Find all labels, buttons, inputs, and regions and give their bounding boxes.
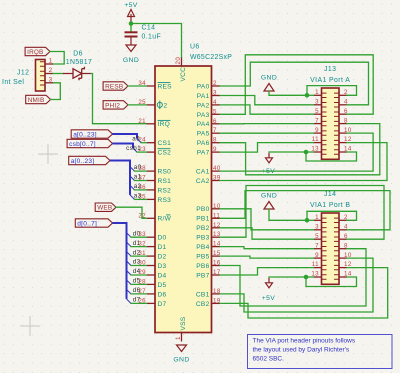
svg-text:PA2: PA2	[197, 102, 210, 109]
J13 pin 13	[314, 151, 322, 153]
U6 left pin 33	[147, 236, 156, 238]
svg-text:RS2: RS2	[158, 187, 172, 194]
U6 pin 20 VCC stub	[181, 58, 183, 67]
svg-text:a5: a5	[132, 136, 140, 143]
U6 right pin 40	[212, 170, 221, 172]
svg-text:d4: d4	[133, 268, 141, 275]
grid marker cross	[38, 144, 58, 164]
bus csb[0..7]	[113, 144, 134, 149]
capacitor C14	[125, 31, 138, 33]
wire GND to J13 pin1	[269, 91, 307, 95]
bus entry d2	[127, 252, 132, 257]
wire PB0 to J14 pin3	[220, 209, 314, 230]
U6 right pin 12	[212, 227, 221, 229]
grid marker cross	[20, 316, 40, 336]
wire PB2 to J14 pin5	[220, 228, 314, 239]
wire IRQB to J12 pin 1	[50, 52, 64, 65]
op-amp U6 body (W65C22SxP VIA)	[155, 66, 212, 333]
svg-text:PHI2: PHI2	[105, 102, 120, 109]
svg-text:CA2: CA2	[196, 178, 210, 185]
wire d2 to D2	[131, 255, 147, 257]
wire junction to J13 pin13 stub	[306, 151, 314, 153]
U6 right pin 4	[212, 104, 221, 106]
U6 right pin 16	[212, 265, 221, 267]
J13 pin 6	[339, 113, 347, 115]
U6 left pin 36	[147, 189, 156, 191]
wire CA1 to J13 pin10	[220, 133, 373, 171]
wire PA2 to J13 pin5	[220, 105, 314, 114]
U6 right pin 17	[212, 274, 221, 276]
svg-text:CS1: CS1	[158, 140, 172, 147]
svg-text:+5V: +5V	[262, 295, 276, 302]
diode D6 (schottky)	[63, 67, 91, 81]
bus entry d7	[127, 299, 132, 304]
junction at J14 pin 1	[305, 218, 310, 223]
bus entry d5	[127, 280, 132, 285]
U6 left pin 21 IRQ	[147, 123, 156, 125]
wire PA6 to J13 pin8	[220, 124, 380, 175]
wire d1 to D1	[131, 246, 147, 248]
wire GND to J14 pin1	[269, 209, 307, 220]
wire J12 pin2 to D6 anode	[53, 73, 63, 75]
wire a3 to RS3	[135, 198, 147, 200]
wire PA0 to J13 pin4	[220, 62, 369, 105]
bus entry a1	[130, 176, 135, 181]
svg-text:1N5817: 1N5817	[66, 59, 93, 66]
bus entry to CS2	[133, 148, 137, 152]
J13 pin 9	[314, 132, 322, 134]
U6 right pin 19	[212, 302, 221, 304]
svg-text:CB2: CB2	[196, 301, 210, 308]
J14 pin 9	[314, 257, 322, 259]
svg-text:d2: d2	[133, 249, 141, 256]
global label PHI2	[103, 101, 128, 109]
svg-text:D4: D4	[158, 272, 167, 279]
wire PB3 to J14 pin6	[220, 186, 384, 240]
svg-text:IRQB: IRQB	[27, 49, 43, 56]
svg-text:d1: d1	[133, 240, 141, 247]
svg-text:d7: d7	[133, 297, 141, 304]
svg-text:21: 21	[138, 118, 146, 125]
svg-text:2: 2	[49, 67, 53, 74]
svg-text:RES: RES	[158, 83, 173, 90]
J14 pin 6	[339, 238, 347, 240]
U6 left pin 26	[147, 302, 156, 304]
svg-text:D3: D3	[158, 263, 167, 270]
junction at J13 pin 1	[305, 93, 310, 98]
wire d4 to D4	[131, 274, 147, 276]
svg-text:+5V: +5V	[124, 2, 138, 9]
wire d3 to D3	[131, 265, 147, 267]
svg-text:D5: D5	[158, 282, 167, 289]
J14 pin 11	[314, 267, 322, 269]
pin name phi2	[157, 102, 162, 107]
bus entry d0	[127, 233, 132, 238]
svg-text:D6: D6	[73, 51, 83, 58]
svg-text:W65C22SxP: W65C22SxP	[190, 54, 232, 61]
bus entry d3	[127, 261, 132, 266]
bus entry d6	[127, 289, 132, 294]
+5V power symbol arrow	[128, 10, 135, 24]
svg-text:3: 3	[315, 99, 319, 106]
wire PB7 to J14 pin11	[220, 268, 314, 275]
wire CA2 to J13 pin12	[220, 143, 387, 181]
svg-text:d5: d5	[133, 278, 141, 285]
wire GND loop to J14 pin2	[307, 211, 357, 220]
global label RESB	[103, 82, 128, 90]
svg-text:7: 7	[315, 242, 319, 249]
wire junction to J13 pin1 stub	[307, 94, 314, 96]
svg-text:PB2: PB2	[196, 225, 209, 232]
J14 pin 8	[339, 248, 347, 250]
svg-text:3: 3	[315, 223, 319, 230]
wire CB2 to J14 pin12	[220, 268, 388, 318]
U6 left pin 38	[147, 170, 156, 172]
bus d[0..7]	[113, 223, 127, 299]
U6 left pin 35	[147, 198, 156, 200]
svg-text:CS2: CS2	[158, 150, 172, 157]
J12 pin 3	[45, 82, 53, 84]
svg-text:a2: a2	[134, 183, 142, 190]
J14 pin 14	[339, 276, 347, 278]
svg-text:3: 3	[213, 90, 217, 97]
ground symbol at J13 pin 1	[264, 84, 274, 92]
U6 right pin 6	[212, 123, 221, 125]
wire +5V to C14 top plate	[130, 24, 132, 32]
svg-text:GND: GND	[261, 75, 277, 82]
svg-text:CB1: CB1	[196, 291, 210, 298]
bus entry a0	[130, 167, 135, 172]
svg-text:PA1: PA1	[197, 93, 210, 100]
U6 right pin 11	[212, 217, 221, 219]
J13 pin 3	[314, 104, 322, 106]
+5V symbol at J14 pin 13 (rotated down)	[266, 278, 273, 288]
bus a[0..23] lower	[110, 161, 130, 195]
wire CB1 to J14 pin10	[220, 258, 373, 312]
wire +5V to J14 pin13	[269, 276, 306, 278]
U6 right pin 5	[212, 113, 221, 115]
bus entry d4	[127, 271, 132, 276]
bus label a[0..23] upper	[71, 130, 112, 138]
svg-text:1: 1	[49, 58, 53, 65]
note text box	[248, 335, 393, 369]
bus entry to CS1	[137, 139, 141, 143]
svg-text:d0: d0	[133, 230, 141, 237]
U6 right pin 18	[212, 293, 221, 295]
wire d0 to D0	[131, 236, 147, 238]
svg-text:8: 8	[213, 137, 217, 144]
J14 pin 12	[339, 267, 347, 269]
svg-text:PA0: PA0	[197, 83, 210, 90]
wire +5V to J13 pin13	[269, 151, 306, 153]
svg-text:csb1: csb1	[126, 145, 141, 152]
svg-text:J13: J13	[324, 66, 336, 73]
U6 right pin 15	[212, 255, 221, 257]
svg-text:RS1: RS1	[158, 178, 172, 185]
svg-text:7: 7	[213, 127, 217, 134]
U6 right pin 8	[212, 142, 221, 144]
svg-text:U6: U6	[190, 44, 200, 51]
J14 pin 13	[314, 276, 322, 278]
wire WEB to U6 R/W pin 22	[116, 207, 147, 218]
svg-text:6502 SBC.: 6502 SBC.	[253, 356, 285, 363]
wire junction to J14 pin1 stub	[307, 219, 314, 221]
svg-text:PB1: PB1	[196, 216, 209, 223]
svg-text:RS0: RS0	[158, 169, 172, 176]
bus entry d1	[127, 242, 132, 247]
svg-text:5: 5	[315, 233, 319, 240]
U6 right pin 7	[212, 132, 221, 134]
wire GND loop to J13 pin2	[307, 86, 357, 96]
U6 left pin 23	[147, 151, 156, 153]
U6 pin 1 VSS stub	[181, 333, 183, 342]
J14 pin 1	[314, 219, 322, 221]
svg-text:GND: GND	[123, 57, 139, 64]
wire C14 bottom to GND	[130, 37, 132, 45]
J13 pin 14	[339, 151, 347, 153]
svg-text:a[0..23]: a[0..23]	[73, 131, 97, 138]
bus label d[0..7]	[75, 219, 112, 227]
svg-text:NMIB: NMIB	[28, 97, 45, 104]
U6 right pin 10	[212, 208, 221, 210]
wire a2 to RS2	[135, 189, 147, 191]
bus entry a3	[130, 195, 135, 200]
svg-text:GND: GND	[261, 193, 277, 200]
wire PA5 to J13 pin9	[220, 132, 314, 134]
svg-text:d6: d6	[133, 287, 141, 294]
U6 left pin 25 PHI2	[147, 104, 156, 106]
svg-text:C14: C14	[142, 25, 156, 32]
svg-text:d[0..7]: d[0..7]	[77, 220, 97, 227]
global label NMIB	[26, 95, 51, 103]
J13 pin 11	[314, 142, 322, 144]
svg-text:D2: D2	[158, 254, 167, 261]
svg-text:0.1uF: 0.1uF	[142, 34, 162, 41]
J12 pin 1	[45, 63, 53, 65]
svg-text:J14: J14	[324, 191, 336, 198]
U6 left pin 31	[147, 255, 156, 257]
wire RESB to U6 RES	[128, 85, 147, 87]
svg-text:2: 2	[213, 80, 217, 87]
bus a[0..23] upper	[113, 134, 138, 139]
svg-text:RESB: RESB	[105, 83, 123, 90]
svg-text:a0: a0	[134, 164, 142, 171]
svg-text:VSS: VSS	[180, 316, 187, 330]
svg-text:PA7: PA7	[197, 150, 210, 157]
connector J14 VIA1 Port B	[322, 213, 340, 284]
J14 pin 5	[314, 238, 322, 240]
bus label csb[0..7]	[67, 139, 112, 147]
global label WEB	[95, 203, 116, 211]
svg-text:1: 1	[315, 214, 319, 221]
J14 pin 4	[339, 229, 347, 231]
svg-text:6: 6	[213, 118, 217, 125]
wire PB1 to J14 pin4	[220, 191, 390, 230]
J14 pin 3	[314, 229, 322, 231]
U6 left pin 34 RES	[147, 85, 156, 87]
svg-text:VIA1 Port B: VIA1 Port B	[310, 202, 350, 209]
U6 left pin 29	[147, 274, 156, 276]
wire a1 to RS1	[135, 180, 147, 182]
U6 left pin 37	[147, 180, 156, 182]
ground symbol at J14 pin 1	[264, 202, 274, 210]
wire d7 to D7	[131, 302, 147, 304]
svg-text:7: 7	[315, 117, 319, 124]
svg-text:5: 5	[213, 108, 217, 115]
svg-text:R/W: R/W	[158, 216, 172, 223]
J14 pin 2	[339, 219, 347, 221]
J13 pin 7	[314, 123, 322, 125]
connector J12 body	[36, 60, 46, 92]
wire +5V loop to J13 pin14	[306, 152, 357, 161]
svg-text:a[0..23]: a[0..23]	[71, 158, 95, 165]
U6 right pin 9	[212, 151, 221, 153]
J13 pin 1	[314, 94, 322, 96]
svg-text:D1: D1	[158, 244, 167, 251]
U6 left pin 24	[147, 142, 156, 144]
svg-text:D7: D7	[158, 301, 167, 308]
svg-text:PB0: PB0	[196, 206, 209, 213]
svg-text:csb[0..7]: csb[0..7]	[69, 141, 96, 148]
U6 right pin 3	[212, 95, 221, 97]
J12 pin 2	[45, 73, 53, 75]
J14 pin 7	[314, 248, 322, 250]
J13 pin 4	[339, 104, 347, 106]
wire PA4 to J13 pin7	[220, 123, 314, 125]
svg-text:PB4: PB4	[196, 244, 209, 251]
wire PA7 to J13 pin11	[220, 143, 314, 153]
svg-text:Int Sel: Int Sel	[2, 79, 24, 86]
U6 right pin 13	[212, 236, 221, 238]
bus entry a2	[130, 185, 135, 190]
J13 pin 12	[339, 142, 347, 144]
wire D6 cathode to U6 IRQ pin 21	[91, 74, 147, 124]
U6 right pin 39	[212, 180, 221, 182]
svg-text:4: 4	[213, 99, 217, 106]
wire PB4 to J14 pin7	[220, 247, 314, 249]
J13 pin 2	[339, 94, 347, 96]
+5V symbol at J13 pin 13 (rotated down)	[266, 153, 273, 163]
ground below C14	[126, 45, 136, 52]
svg-text:D0: D0	[158, 235, 167, 242]
bus label a[0..23] lower	[69, 156, 110, 164]
svg-text:d3: d3	[133, 259, 141, 266]
svg-text:IRQ: IRQ	[158, 121, 170, 128]
svg-text:PB6: PB6	[196, 263, 209, 270]
wire junction to J14 pin13 stub	[306, 276, 314, 278]
junction at J13 pin 13	[304, 150, 309, 155]
svg-text:RS3: RS3	[158, 197, 172, 204]
svg-text:1: 1	[315, 89, 319, 96]
svg-text:WEB: WEB	[97, 205, 112, 212]
svg-text:9: 9	[213, 146, 217, 153]
U6 left pin 27	[147, 293, 156, 295]
svg-text:PA5: PA5	[197, 131, 210, 138]
global label IRQB	[25, 47, 50, 55]
wire +5V to U6 VCC pin 20	[131, 24, 182, 58]
svg-text:9: 9	[315, 252, 319, 259]
svg-text:2: 2	[164, 102, 168, 109]
wire d5 to D5	[131, 283, 147, 285]
svg-text:PA4: PA4	[197, 121, 210, 128]
junction at J14 pin 13	[304, 275, 309, 280]
J13 pin 10	[339, 132, 347, 134]
U6 right pin 2	[212, 85, 221, 87]
wire csb1 to CS2	[137, 151, 147, 153]
U6 right pin 14	[212, 246, 221, 248]
svg-text:a3: a3	[134, 192, 142, 199]
svg-text:GND: GND	[173, 357, 189, 364]
U6 left pin 28	[147, 283, 156, 285]
svg-text:J12: J12	[17, 70, 29, 77]
J14 pin 10	[339, 257, 347, 259]
wire PB5 to J14 pin9	[220, 256, 314, 258]
wire d6 to D6	[131, 293, 147, 295]
connector J13 VIA1 Port A	[322, 88, 340, 159]
svg-text:20: 20	[175, 57, 182, 65]
U6 left pin 22	[147, 217, 156, 219]
svg-text:PA6: PA6	[197, 140, 210, 147]
svg-text:3: 3	[49, 77, 53, 84]
wire a0 to RS0	[135, 170, 147, 172]
junction +5V/C14 node	[129, 21, 134, 26]
wire NMIB to J12 pin 3	[51, 83, 61, 100]
svg-text:the layout used by Daryl Richt: the layout used by Daryl Richter's	[253, 347, 350, 354]
svg-text:9: 9	[315, 127, 319, 134]
svg-text:5: 5	[315, 108, 319, 115]
U6 left pin 32	[147, 246, 156, 248]
svg-text:The VIA port header pinouts fo: The VIA port header pinouts follows	[253, 338, 356, 345]
svg-text:VCC: VCC	[180, 67, 187, 82]
J13 pin 5	[314, 113, 322, 115]
svg-text:PB5: PB5	[196, 254, 209, 261]
wire PA1 to J13 pin3	[220, 96, 314, 105]
J13 pin 8	[339, 123, 347, 125]
svg-text:1: 1	[175, 336, 182, 340]
wire PB6 to J14 pin8	[220, 249, 366, 306]
svg-text:PB3: PB3	[196, 235, 209, 242]
svg-text:PA3: PA3	[197, 112, 210, 119]
wire a5 to CS1	[141, 142, 147, 144]
svg-text:VIA1 Port A: VIA1 Port A	[310, 77, 350, 84]
ground below U6 VSS	[177, 345, 187, 352]
svg-text:PB7: PB7	[196, 272, 209, 279]
wire +5V loop to J14 pin14	[306, 277, 357, 287]
svg-text:D6: D6	[158, 291, 167, 298]
wire PA3 to J13 pin6	[220, 55, 373, 115]
svg-text:a1: a1	[134, 174, 142, 181]
U6 left pin 30	[147, 265, 156, 267]
svg-text:11: 11	[213, 212, 220, 219]
wire PHI2 to U6 phi2	[128, 104, 147, 106]
svg-text:CA1: CA1	[196, 169, 210, 176]
